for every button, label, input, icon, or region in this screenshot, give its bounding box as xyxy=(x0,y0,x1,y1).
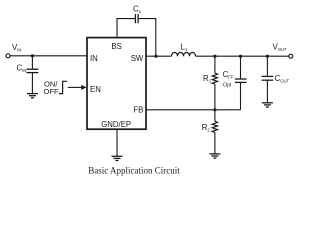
junction CIN tap xyxy=(31,54,34,57)
resistor R1 xyxy=(212,73,217,84)
resistor R2 xyxy=(212,121,217,132)
svg-text:Basic Application Circuit: Basic Application Circuit xyxy=(88,165,180,175)
wire COUT top xyxy=(266,56,268,76)
junction CFF tap xyxy=(239,55,242,58)
wire CFF bottom xyxy=(240,82,242,109)
wire SW pin to L1 xyxy=(146,55,172,57)
terminal VOUT xyxy=(289,54,293,58)
svg-text:ON/OFF: ON/OFF xyxy=(44,80,60,96)
wire GND/EP pin xyxy=(116,129,118,156)
ground GND/EP xyxy=(112,156,123,160)
wire CFF top xyxy=(240,56,242,79)
wire L1 to VOUT xyxy=(196,55,289,57)
svg-text:GND/EP: GND/EP xyxy=(101,120,131,129)
wire COUT bottom xyxy=(266,80,268,102)
svg-text:EN: EN xyxy=(90,85,101,94)
svg-text:Opt: Opt xyxy=(223,83,232,89)
svg-text:C1: C1 xyxy=(133,4,142,14)
wire VIN to IN pin xyxy=(10,55,87,57)
svg-text:R2: R2 xyxy=(202,123,211,133)
wire FB pin to feedback node xyxy=(146,109,241,111)
wire R2 top xyxy=(214,110,216,121)
svg-text:COUT: COUT xyxy=(275,74,290,84)
wire R2 bottom xyxy=(214,132,216,153)
op-amp U1 (regulator IC block) xyxy=(87,38,146,130)
svg-text:VIN: VIN xyxy=(12,43,21,53)
svg-text:CFF: CFF xyxy=(223,70,234,80)
svg-text:SW: SW xyxy=(131,54,144,63)
junction R1 tap xyxy=(213,55,216,58)
capacitor CFF xyxy=(235,79,247,82)
wire C1 to SW node xyxy=(138,19,156,57)
svg-text:CIN: CIN xyxy=(17,64,27,74)
svg-text:VOUT: VOUT xyxy=(273,42,288,52)
step waveform symbol xyxy=(59,81,67,93)
junction SW node xyxy=(154,55,157,58)
terminal VIN xyxy=(6,54,10,58)
ground CIN xyxy=(27,94,38,98)
junction COUT tap xyxy=(266,55,269,58)
capacitor COUT xyxy=(262,76,274,80)
svg-text:IN: IN xyxy=(90,54,98,63)
ground COUT xyxy=(262,103,273,107)
capacitor CIN xyxy=(26,69,38,72)
wire arrow to EN pin xyxy=(68,86,82,88)
wire R1 bottom xyxy=(214,84,216,110)
capacitor C1 xyxy=(135,14,138,23)
svg-text:R1: R1 xyxy=(203,74,212,84)
ground R2 xyxy=(209,154,220,158)
wire R1 top xyxy=(214,56,216,73)
svg-text:BS: BS xyxy=(111,42,121,51)
junction FB node xyxy=(213,108,216,111)
svg-text:L1: L1 xyxy=(181,43,188,53)
wire CIN top xyxy=(31,56,33,69)
svg-text:FB: FB xyxy=(133,105,143,114)
wire CIN bottom xyxy=(31,73,33,94)
inductor L1 xyxy=(172,52,196,56)
wire BS pin to C1 xyxy=(117,19,135,38)
